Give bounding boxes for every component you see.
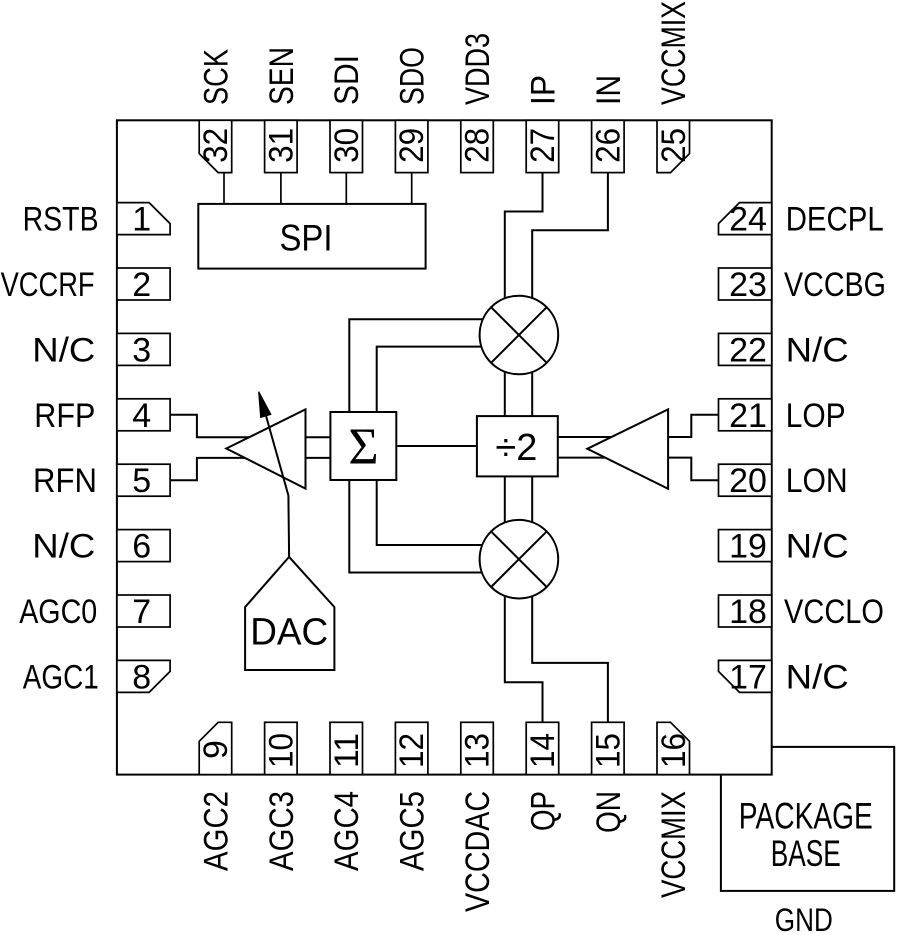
svg-text:AGC4: AGC4 [328,791,366,871]
svg-text:AGC5: AGC5 [394,791,432,871]
svg-text:LON: LON [786,462,848,500]
svg-text:VDD3: VDD3 [459,33,497,105]
svg-text:19: 19 [729,528,767,566]
svg-text:VCCLO: VCCLO [784,593,884,631]
svg-text:AGC2: AGC2 [197,791,235,871]
svg-text:21: 21 [729,397,767,435]
svg-text:28: 28 [459,128,497,163]
svg-text:RFN: RFN [33,462,97,500]
svg-text:SEN: SEN [263,47,301,105]
svg-text:AGC3: AGC3 [263,791,301,871]
svg-text:PACKAGE: PACKAGE [739,794,873,836]
svg-text:QP: QP [525,791,563,831]
svg-text:26: 26 [590,128,628,163]
svg-text:SPI: SPI [280,218,333,259]
svg-text:10: 10 [263,733,301,768]
svg-text:SCK: SCK [197,49,235,105]
svg-text:23: 23 [729,266,767,304]
svg-text:4: 4 [132,397,151,435]
svg-text:6: 6 [132,528,151,566]
svg-text:20: 20 [729,462,767,500]
svg-text:30: 30 [328,128,366,163]
svg-text:3: 3 [132,331,151,369]
svg-text:SDI: SDI [328,55,366,105]
svg-text:8: 8 [132,658,151,696]
svg-text:29: 29 [393,128,431,163]
svg-text:RFP: RFP [34,397,95,435]
svg-text:RSTB: RSTB [23,201,99,239]
svg-text:SDO: SDO [394,47,432,105]
svg-text:IP: IP [525,75,563,105]
svg-text:7: 7 [132,593,151,631]
svg-text:14: 14 [524,733,562,768]
svg-text:N/C: N/C [786,331,849,369]
svg-text:5: 5 [132,462,151,500]
svg-text:17: 17 [729,658,767,696]
svg-text:IN: IN [590,75,628,105]
svg-text:DAC: DAC [250,612,328,654]
svg-text:32: 32 [197,128,235,163]
svg-text:12: 12 [393,733,431,768]
svg-text:÷2: ÷2 [495,427,537,469]
svg-text:15: 15 [590,733,628,768]
svg-text:BASE: BASE [771,832,841,874]
svg-text:Σ: Σ [348,418,378,475]
svg-text:16: 16 [655,733,693,768]
svg-text:VCCMIX: VCCMIX [655,1,693,105]
svg-text:25: 25 [655,128,693,163]
svg-text:31: 31 [263,128,301,163]
svg-text:VCCRF: VCCRF [1,266,95,304]
svg-text:N/C: N/C [786,528,849,566]
svg-text:VCCBG: VCCBG [784,266,886,304]
svg-text:N/C: N/C [32,331,95,369]
svg-text:QN: QN [590,791,628,833]
svg-text:1: 1 [132,201,151,239]
svg-text:GND: GND [775,902,833,935]
svg-text:18: 18 [729,593,767,631]
svg-text:9: 9 [197,740,235,759]
svg-text:LOP: LOP [786,397,846,435]
svg-text:AGC0: AGC0 [19,593,97,631]
svg-text:24: 24 [729,201,767,239]
svg-text:13: 13 [459,733,497,768]
svg-text:N/C: N/C [786,658,849,696]
svg-text:AGC1: AGC1 [23,658,99,696]
svg-text:2: 2 [132,266,151,304]
svg-text:VCCMIX: VCCMIX [655,791,693,898]
svg-text:VCCDAC: VCCDAC [459,791,497,912]
svg-text:22: 22 [729,331,767,369]
svg-text:11: 11 [328,733,366,768]
svg-text:27: 27 [524,128,562,163]
svg-text:N/C: N/C [32,528,95,566]
svg-text:DECPL: DECPL [786,201,884,239]
